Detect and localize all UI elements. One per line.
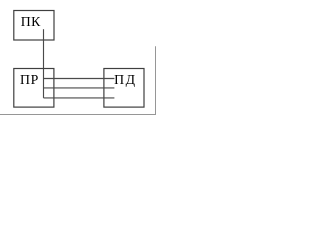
wire PR to PD line 2 xyxy=(44,87,115,89)
wire PR to PD line 3 xyxy=(44,97,115,99)
block PD (transmitter) box xyxy=(104,69,144,108)
svg-text:ПД: ПД xyxy=(114,72,137,87)
wire PR to PD line 1 xyxy=(44,78,115,80)
svg-text:ПК: ПК xyxy=(21,14,41,29)
frame bottom border line xyxy=(0,114,156,116)
block PR (receiver) box xyxy=(14,69,54,108)
svg-text:ПР: ПР xyxy=(20,72,39,87)
wire PK to PR vertical xyxy=(43,29,45,98)
frame right border line xyxy=(155,46,157,115)
block PK (computer) box xyxy=(14,11,54,41)
